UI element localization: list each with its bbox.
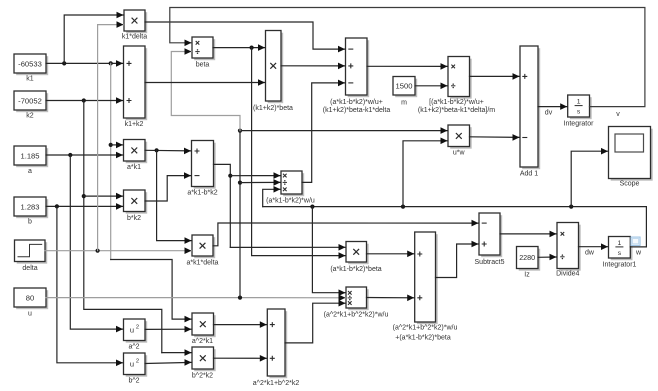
svg-text:2: 2 (136, 358, 139, 364)
svg-text:(k1+k2)*beta-k1*delta: (k1+k2)*beta-k1*delta (323, 107, 391, 114)
wire u to w/u divide (240, 179, 281, 186)
wire k2 to k1+k2 (46, 97, 123, 104)
divide Divide4 (557, 223, 581, 271)
svg-text:(a*k1-b*k2)*beta: (a*k1-b*k2)*beta (330, 266, 381, 273)
product a*k1 (124, 140, 148, 164)
svg-text:w: w (635, 250, 642, 257)
product (a^2*k1+b^2*k2)*w/u (346, 287, 369, 310)
divide by m (448, 57, 472, 99)
wire a to a*k1 (46, 152, 123, 159)
product u*w (448, 125, 472, 149)
wire k1*delta to sum (145, 22, 345, 52)
wire sum to a^2w/u (285, 300, 346, 343)
wire k1+k2 to (k1+k2)*beta (145, 79, 265, 86)
junction u corner (238, 129, 242, 133)
svg-text:-60533: -60533 (18, 59, 42, 68)
junction delta branch up (96, 249, 100, 253)
wire u to u*w (240, 127, 448, 134)
wire a*k1*delta to Subtract5 (213, 220, 479, 246)
svg-text:a^2*k1+b^2*k2: a^2*k1+b^2*k2 (253, 380, 300, 387)
constant k1 (-60533) (14, 54, 48, 75)
wire w to w/u product (263, 186, 281, 207)
svg-text:u: u (130, 359, 134, 368)
product k1*delta (124, 10, 147, 33)
wire a*k1-b*k2 to beta prod (230, 244, 345, 251)
wire a*k1 to a*k1*delta (157, 150, 192, 244)
svg-text:b*k2: b*k2 (127, 215, 141, 222)
svg-text:u: u (130, 325, 134, 334)
junction k2 tap b*k2 (82, 194, 86, 198)
product (a*k1-b*k2)*beta (346, 242, 369, 265)
svg-text:k2: k2 (26, 113, 34, 120)
wire w/u to sum (302, 80, 345, 183)
wire Iz to Divide4 (538, 254, 557, 261)
svg-text:(a*k1-b*k2)*w/u: (a*k1-b*k2)*w/u (266, 198, 315, 205)
junction k1 branch down (109, 61, 113, 65)
svg-text:v: v (616, 111, 620, 118)
wire b*k2 to a*k1-b*k2 (145, 172, 191, 201)
svg-text:Divide4: Divide4 (556, 271, 579, 278)
sum wu+beta-delta (346, 38, 370, 97)
junction k1 tap a*k1 (109, 143, 113, 147)
wire w to a^2w/u (312, 207, 345, 296)
svg-text:b^2: b^2 (128, 378, 139, 385)
wire (k1+k2)*beta to sum (281, 63, 345, 70)
wire w feedback main (263, 207, 647, 247)
wire u*w to Add1 (470, 134, 520, 141)
sum a*k1-b*k2 (192, 141, 216, 189)
svg-text:Subtract5: Subtract5 (475, 259, 505, 266)
svg-text:a^2: a^2 (128, 344, 139, 351)
wire k1 to a^2*k1 (111, 260, 192, 323)
integrator Integrator (568, 95, 592, 119)
sum Subtract5 (479, 213, 502, 257)
wire delta to a*k1*delta (45, 247, 192, 254)
wire u to beta divide (171, 48, 240, 130)
product b*k2 (124, 190, 148, 214)
svg-text:delta: delta (22, 265, 37, 272)
wire beta to (a*k1-b*k2)*beta (252, 48, 346, 259)
wire b^2*k2 to sum (214, 355, 267, 362)
product b^2*k2 (192, 347, 216, 371)
product a*k1*delta (192, 235, 215, 258)
svg-text:(k1+k2)*beta: (k1+k2)*beta (253, 105, 293, 112)
wire delta to k1*delta (98, 21, 124, 250)
product a^2*k1 (192, 313, 216, 337)
constant u (80) (14, 288, 48, 309)
selection badge (631, 237, 640, 246)
svg-text:Integrator: Integrator (564, 121, 595, 128)
junction b branch down (55, 204, 59, 208)
junction w tap a^2 block (310, 205, 314, 209)
wire sum to /m (367, 63, 448, 70)
wire a*k1-b*k2 to w/u (230, 172, 280, 179)
wire k1 to a*k1 (111, 142, 123, 149)
wire beta to (k1+k2)*beta (213, 44, 265, 51)
junction a branch down (68, 153, 72, 157)
wire big sum to Subtract5 (436, 241, 479, 278)
wire /m to Add1 (470, 73, 520, 80)
svg-text:-70052: -70052 (18, 96, 42, 105)
junction a*k1 branch down (155, 148, 159, 152)
svg-text:Iz: Iz (524, 272, 530, 279)
wire k1 down (110, 63, 112, 259)
svg-text:Add 1: Add 1 (520, 171, 538, 178)
svg-text:m: m (401, 100, 407, 107)
wire Subtract5 to Divide4 (500, 231, 557, 238)
svg-text:k1*delta: k1*delta (122, 34, 147, 41)
svg-text:2280: 2280 (519, 253, 535, 262)
junction k1 branch up (62, 61, 66, 65)
svg-text:beta: beta (196, 62, 210, 69)
svg-text:a*k1: a*k1 (127, 164, 141, 171)
junction w tap scope (569, 205, 573, 209)
svg-text:1: 1 (577, 99, 581, 106)
constant m (1500) (393, 77, 417, 98)
svg-text:1.185: 1.185 (20, 151, 39, 160)
wire k2 down (84, 101, 162, 353)
wire k2 to b*k2 (84, 193, 123, 200)
product (a*k1-b*k2)*w/u (281, 171, 304, 196)
svg-text:a^2*k1: a^2*k1 (192, 338, 213, 345)
svg-text:2: 2 (136, 324, 139, 330)
wire k1 to k1+k2 (46, 60, 123, 67)
integrator Integrator1 (609, 237, 633, 261)
junction u branch up (238, 296, 242, 300)
svg-text:(a*k1-b*k2)*w/u+: (a*k1-b*k2)*w/u+ (330, 99, 383, 106)
sum big w equation (415, 232, 438, 324)
wire Divide4 to Integrator1 (579, 243, 609, 250)
svg-text:a*k1-b*k2: a*k1-b*k2 (187, 190, 217, 197)
wire m to /m (415, 83, 448, 90)
junction beta branch down (250, 46, 254, 50)
constant b (1.283) (14, 197, 48, 218)
source delta (step) (15, 240, 48, 264)
svg-text:k1: k1 (26, 76, 34, 83)
math square b^2 (124, 353, 148, 377)
math square a^2 (124, 319, 148, 343)
wire b^2 to b^2*k2 (145, 359, 192, 366)
svg-text:dv: dv (545, 109, 553, 116)
divide beta (192, 37, 215, 60)
sum a^2*k1+b^2*k2 (267, 309, 287, 378)
wire a*k1 to a*k1-b*k2 (145, 148, 191, 155)
wire w to u*w (403, 138, 448, 207)
svg-text:Scope: Scope (620, 181, 640, 188)
wire Add1 to Integrator (538, 103, 567, 110)
svg-text:+(a*k1-b*k2)*beta: +(a*k1-b*k2)*beta (395, 335, 451, 342)
junction u tap w/u divide (238, 181, 242, 185)
wire b to b^2 (57, 206, 123, 366)
svg-text:s: s (618, 250, 622, 257)
svg-text:1.283: 1.283 (20, 202, 39, 211)
wire k1 to k1*delta (64, 12, 123, 64)
wire u up (239, 131, 241, 298)
wire k2 to b^2*k2 (162, 349, 192, 356)
sum Add 1 (520, 46, 540, 169)
wire w to Scope (571, 148, 608, 207)
svg-text:1: 1 (618, 240, 622, 247)
svg-text:a*k1*delta: a*k1*delta (187, 260, 219, 267)
junction w tap u*w (401, 205, 405, 209)
svg-text:[(a*k1-b*k2)*w/u+: [(a*k1-b*k2)*w/u+ (429, 99, 484, 106)
svg-text:k1+k2: k1+k2 (125, 121, 144, 128)
wire a^2*k1 to sum (214, 321, 267, 328)
wire a*k1-b*k2 out (214, 164, 231, 247)
svg-text:s: s (577, 109, 581, 116)
wire a^2w/u to big sum (367, 295, 415, 302)
product (k1+k2)*beta (266, 31, 284, 104)
svg-text:80: 80 (26, 293, 34, 302)
svg-text:u: u (28, 311, 32, 318)
scope Scope (609, 127, 653, 181)
wire b to b*k2 (46, 203, 123, 210)
svg-text:u*w: u*w (453, 150, 466, 157)
svg-text:(a^2*k1+b^2*k2)*w/u: (a^2*k1+b^2*k2)*w/u (324, 312, 389, 319)
junction k2 branch down (82, 98, 86, 102)
svg-text:a: a (28, 168, 32, 175)
constant a (1.185) (14, 146, 48, 167)
svg-text:Integrator1: Integrator1 (603, 262, 637, 269)
svg-text:(k1+k2)*beta-k1*delta]/m: (k1+k2)*beta-k1*delta]/m (418, 107, 495, 114)
junction a*k1-b*k2 tap (228, 174, 232, 178)
wire a to a^2 (70, 155, 123, 332)
wire v feedback (170, 8, 645, 107)
svg-text:(a^2*k1+b^2*k2)*w/u: (a^2*k1+b^2*k2)*w/u (393, 325, 458, 332)
svg-text:b^2*k2: b^2*k2 (192, 373, 213, 380)
svg-text:dw: dw (585, 250, 595, 257)
svg-text:1500: 1500 (396, 82, 413, 91)
sum k1+k2 (124, 46, 148, 120)
svg-text:b: b (28, 219, 32, 226)
wire a^2 to a^2*k1 (145, 326, 192, 333)
wire beta prod to big sum (367, 251, 415, 258)
constant k2 (-70052) (14, 91, 48, 112)
wire u out (46, 297, 240, 299)
constant Iz (2280) (517, 247, 541, 271)
wire u to aw/u divide (240, 295, 346, 302)
